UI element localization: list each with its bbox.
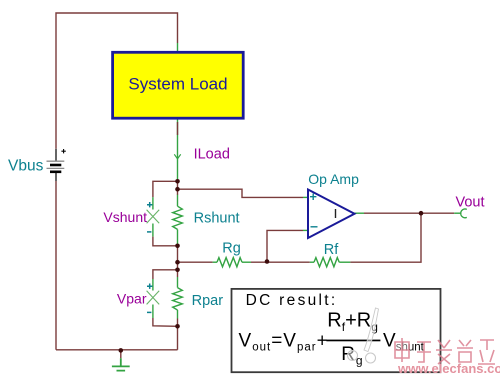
wire: green stub above Vshunt X: [152, 197, 154, 209]
wire: battery bottom black lead: [55, 173, 57, 181]
wire: bottom rail: [56, 349, 178, 351]
wire: green stub at minus input: [303, 229, 308, 231]
watermark ghost glyph: [348, 308, 379, 363]
wire: minus input branch: [267, 230, 303, 261]
wire: green lead into Rshunt: [177, 195, 179, 207]
wire: green stub below Vpar X: [152, 305, 154, 319]
wire: left loop from battery top, across top, down to System Load: [56, 13, 178, 149]
svg-text:Rshunt: Rshunt: [194, 211, 240, 227]
svg-text:DC result:: DC result:: [246, 292, 338, 309]
plus mark Vpar probe (teal): [147, 284, 152, 289]
DC result box: [232, 289, 441, 372]
wire: green stub at plus input: [303, 196, 308, 198]
System Load box: [113, 52, 244, 118]
wire: trunk nodeA to nodeC: [177, 244, 179, 277]
wire: green stub above Vpar X: [152, 279, 154, 291]
resistor Rpar: [173, 288, 183, 310]
wire: green lead left of Rg: [213, 261, 217, 263]
junction dots: [175, 179, 180, 184]
wire: left vertical below battery down to bottom rail: [55, 181, 57, 350]
wire: rail Rf to feedback riser: [350, 213, 421, 262]
Vout port circle: [461, 209, 467, 218]
wire: battery top black lead: [55, 149, 57, 161]
current arrow ILoad (green chevron): [174, 154, 180, 159]
wire: Vpar probe bottom branch: [153, 318, 178, 326]
wire: output to Vout port: [364, 212, 454, 214]
op-amp plus mark: [310, 194, 316, 201]
wire: green lead right of Rf: [339, 261, 350, 263]
probe X Vpar: [147, 291, 160, 305]
svg-text:Rg: Rg: [222, 241, 241, 257]
battery Vbus: [47, 149, 66, 172]
wire: green lead right of Rg: [242, 261, 251, 263]
op-amp minus mark: [311, 226, 318, 228]
minus mark Vshunt probe (teal): [147, 231, 151, 233]
wire: green stub at Vout port: [454, 212, 461, 214]
wire: Vshunt probe top branch: [153, 181, 178, 197]
minus mark Vpar probe (teal): [147, 311, 151, 313]
plus mark Vshunt probe (teal): [147, 202, 152, 207]
wire: Vshunt probe bottom branch: [153, 237, 178, 246]
watermark chinese characters: [395, 338, 495, 364]
wire: green lead left of Rf: [310, 261, 314, 263]
svg-text:Rpar: Rpar: [192, 293, 224, 309]
svg-text:Rf: Rf: [324, 242, 339, 258]
wire: green lead out of Rshunt: [177, 229, 179, 244]
op-amp U1: [308, 190, 355, 239]
svg-text:Op Amp: Op Amp: [308, 171, 359, 187]
resistor Rg: [217, 258, 242, 267]
wire: feedback rail nodeB to Rg: [178, 261, 213, 263]
svg-text:Vshunt: Vshunt: [103, 209, 147, 225]
wire: node2 to op-amp plus input with jog: [178, 189, 304, 197]
wire: green lead out of Rpar: [177, 310, 179, 319]
svg-text:www.elecfans.com: www.elecfans.com: [397, 361, 500, 376]
svg-text:Vpar: Vpar: [117, 291, 147, 307]
resistor Rshunt: [173, 206, 183, 229]
wire: trunk node1 to node2: [177, 181, 179, 195]
wire: green stub into System Load top: [177, 43, 179, 52]
resistor Rf: [314, 258, 339, 267]
probe X Vshunt: [147, 210, 160, 224]
svg-text:ILoad: ILoad: [194, 146, 230, 162]
wire: green stub at op-amp output: [355, 212, 365, 214]
wire: green lead into Rpar: [177, 277, 179, 288]
wire: Vpar probe top branch: [153, 270, 178, 279]
wire: rail Rg to Rf: [251, 261, 310, 263]
wire: green stub below Vshunt X: [152, 224, 154, 237]
wire: green net below System Load to node: [177, 118, 179, 181]
wire: trunk below Rpar to bottom rail: [177, 319, 179, 350]
svg-text:Vbus: Vbus: [8, 158, 44, 175]
svg-text:Vout: Vout: [456, 195, 485, 211]
formula fraction bar: [326, 340, 380, 342]
wire: maroon pin stub below System Load: [177, 122, 179, 135]
svg-text:System Load: System Load: [128, 74, 227, 93]
ground: [120, 350, 122, 358]
op-amp inner mark: [335, 209, 337, 218]
